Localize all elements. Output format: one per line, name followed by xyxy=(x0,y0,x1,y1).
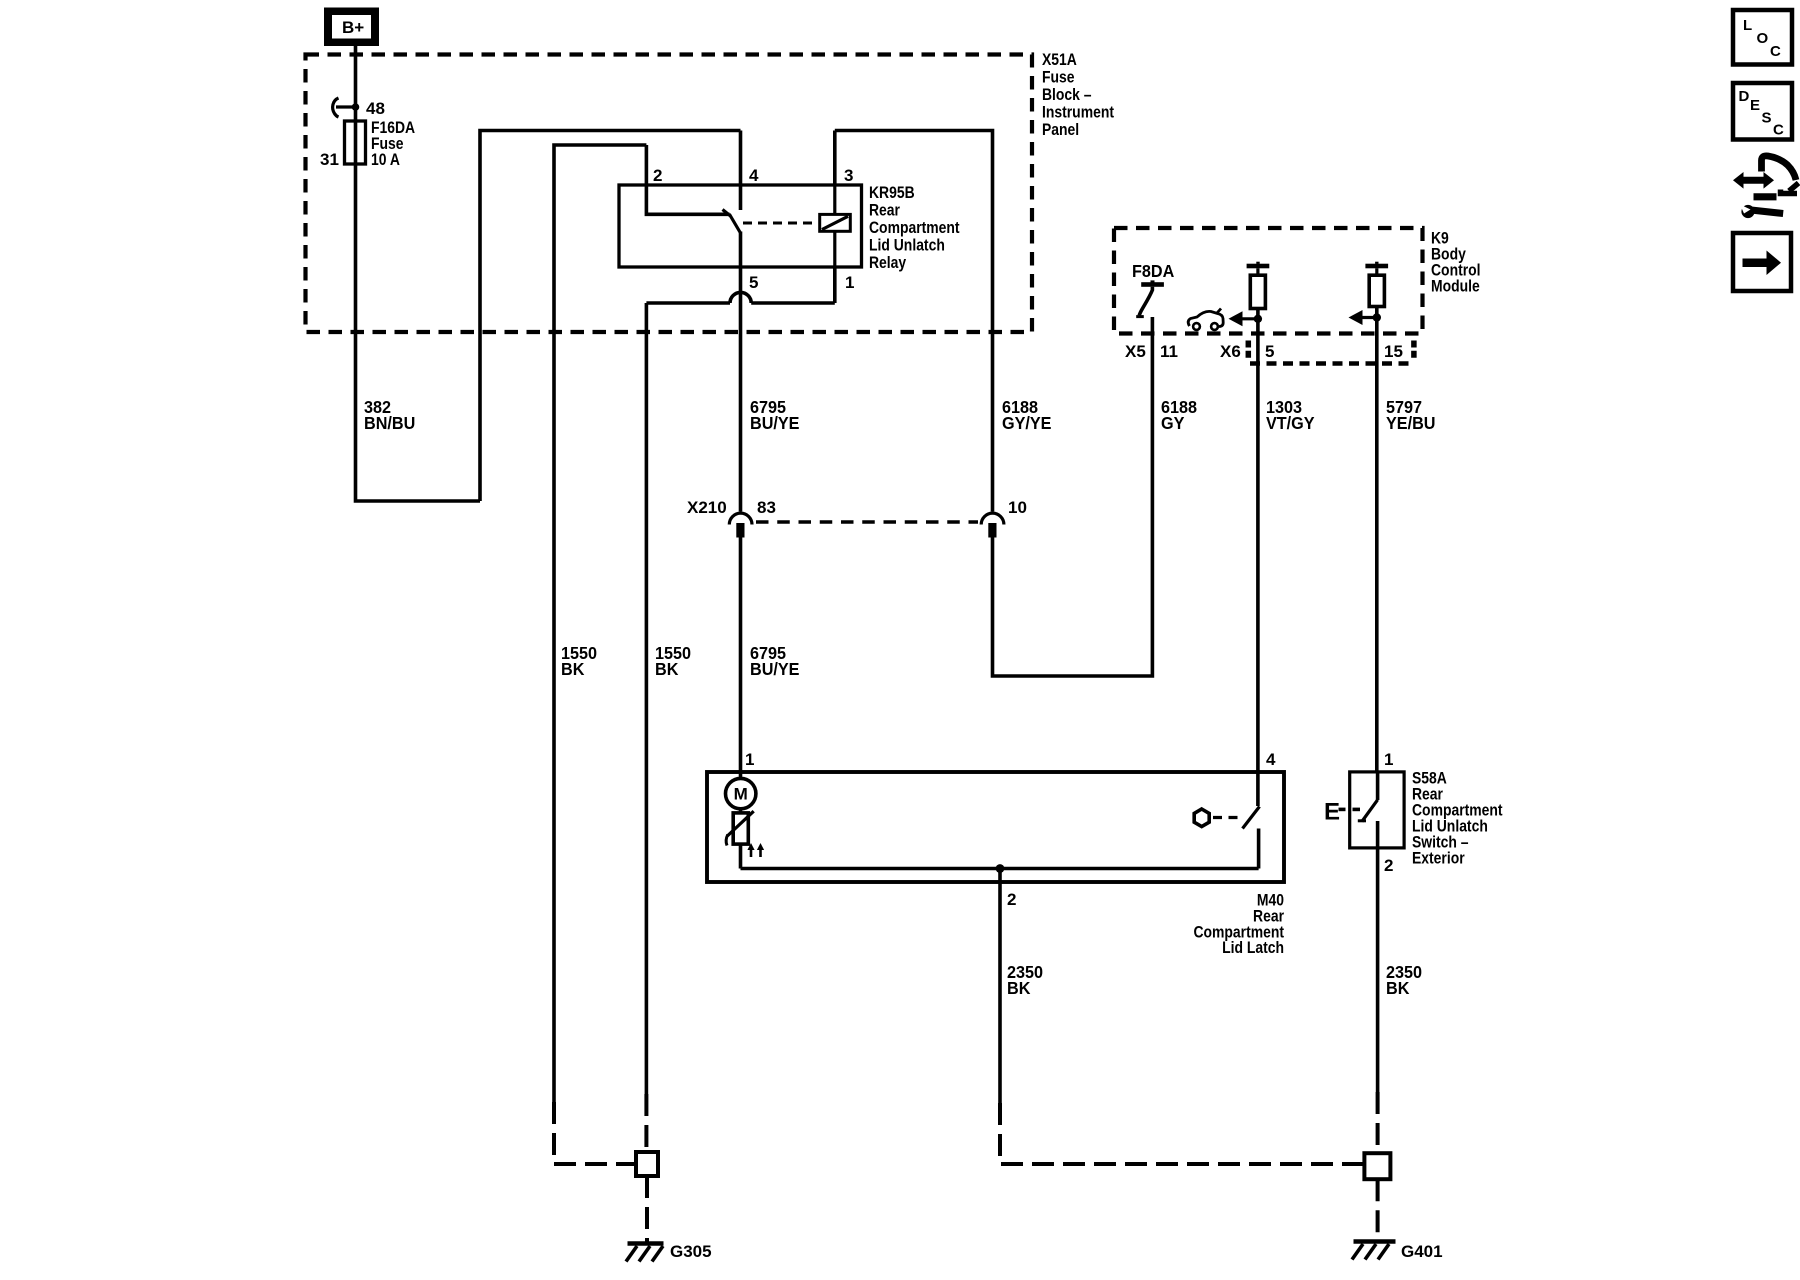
svg-text:C: C xyxy=(1773,122,1784,139)
svg-text:4: 4 xyxy=(1266,750,1276,769)
svg-text:BK: BK xyxy=(1386,978,1410,998)
svg-text:B+: B+ xyxy=(342,18,364,37)
splice box at G401 xyxy=(1364,1153,1390,1179)
wire X210 pin 10 to K9 X5-11 xyxy=(993,317,1153,676)
svg-text:BK: BK xyxy=(655,659,679,679)
dashed wire 1550 BK left to splice xyxy=(554,1102,636,1164)
svg-text:L: L xyxy=(1743,17,1752,34)
dashed wire splice to ground G305 xyxy=(645,1176,649,1242)
bus tap connector 48 xyxy=(333,98,360,117)
relay coil xyxy=(820,185,851,267)
svg-text:BU/YE: BU/YE xyxy=(750,413,799,433)
wire label 1550 BK (left) xyxy=(561,643,597,679)
M40 switch dashed link xyxy=(1213,816,1242,819)
K9 internal arrow (switch signal) xyxy=(1349,310,1382,325)
dashed wire 1550 BK right into splice xyxy=(644,1094,648,1152)
wire B+ through fuse down and right to riser xyxy=(356,46,481,501)
wire label 5797 YE/BU xyxy=(1386,397,1435,433)
svg-text:GY: GY xyxy=(1161,413,1185,433)
connector X210 pin 10 xyxy=(981,513,1004,537)
nav icon next arrow xyxy=(1733,233,1791,291)
svg-text:VT/GY: VT/GY xyxy=(1266,413,1315,433)
M40 switch blade xyxy=(1243,807,1260,829)
svg-text:Compartment: Compartment xyxy=(869,219,960,238)
wire label 6188 GY/YE xyxy=(1002,397,1051,433)
svg-text:BU/YE: BU/YE xyxy=(750,659,799,679)
svg-text:BK: BK xyxy=(1007,978,1031,998)
wire X210 pin 83 to M40 pin 1 xyxy=(739,538,743,773)
wire label 2350 BK (left) xyxy=(1007,962,1043,998)
svg-text:15: 15 xyxy=(1384,342,1403,361)
svg-text:E: E xyxy=(1750,97,1760,114)
wire label 1303 VT/GY xyxy=(1266,397,1315,433)
M40 internal bus wire xyxy=(741,844,1259,869)
label X51A Fuse Block - Instrument Panel xyxy=(1042,51,1114,140)
svg-text:M: M xyxy=(734,785,748,804)
relay mechanical linkage (dashed) xyxy=(743,222,818,225)
svg-text:BK: BK xyxy=(561,659,585,679)
M40 pin 4 lead xyxy=(1256,772,1260,806)
svg-text:Lid Unlatch: Lid Unlatch xyxy=(869,236,945,255)
svg-text:Instrument: Instrument xyxy=(1042,103,1114,122)
svg-text:X210: X210 xyxy=(687,498,727,517)
ground G305 xyxy=(626,1244,664,1262)
splice box at G305 xyxy=(636,1152,658,1176)
wire label 2350 BK (right) xyxy=(1386,962,1422,998)
nav icon DESC xyxy=(1733,83,1792,140)
S58A exterior actuator E xyxy=(1324,799,1360,826)
svg-text:Module: Module xyxy=(1431,277,1480,296)
relay pin 4 lead xyxy=(739,131,743,211)
label S58A Rear Compartment Lid Unlatch Switch - Exterior xyxy=(1412,769,1503,868)
dashed wire 2350 BK left to splice xyxy=(1000,1103,1364,1164)
connector X210 dashed mating line xyxy=(756,520,978,524)
wire relay pin 1 return with hop xyxy=(646,267,834,1094)
module K9 dashed box xyxy=(1114,228,1423,334)
svg-text:2: 2 xyxy=(1007,890,1016,909)
wire label 6188 GY xyxy=(1161,397,1197,433)
svg-text:2: 2 xyxy=(653,166,662,185)
relay KR95B box xyxy=(619,185,862,267)
svg-text:4: 4 xyxy=(749,166,759,185)
ground G401 xyxy=(1352,1242,1396,1260)
svg-text:S: S xyxy=(1762,110,1772,127)
relay pin 2 lead xyxy=(646,145,729,214)
svg-text:5: 5 xyxy=(749,273,758,292)
svg-text:C: C xyxy=(1770,43,1781,60)
thermal arrows xyxy=(747,843,764,857)
svg-text:1: 1 xyxy=(745,750,754,769)
K9 driver element (resistor) for 1303 output xyxy=(1247,262,1270,309)
svg-text:31: 31 xyxy=(320,150,339,169)
svg-text:5: 5 xyxy=(1265,342,1274,361)
junction node in M40 xyxy=(996,864,1005,873)
svg-text:Relay: Relay xyxy=(869,254,906,273)
svg-text:1: 1 xyxy=(1384,750,1393,769)
wire relay pin 3 to X210 pin 10 xyxy=(835,131,993,512)
svg-text:2: 2 xyxy=(1384,856,1393,875)
wire label 6795 BU/YE (lower) xyxy=(750,643,799,679)
svg-text:Lid Latch: Lid Latch xyxy=(1222,939,1284,958)
svg-text:GY/YE: GY/YE xyxy=(1002,413,1051,433)
hood open indicator (car icon) xyxy=(1188,309,1223,330)
wire riser up to relay pin 4 feed xyxy=(480,131,741,502)
svg-text:O: O xyxy=(1757,30,1769,47)
svg-text:BN/BU: BN/BU xyxy=(364,413,415,433)
relay switch blade xyxy=(729,214,740,233)
fuse F16DA body xyxy=(345,121,366,164)
latch M40 box xyxy=(707,772,1284,882)
wire K9 5797 input down to S58A pin 1 xyxy=(1375,307,1379,773)
fuse F8DA symbol xyxy=(1136,280,1164,316)
connector X210 pin 83 xyxy=(729,513,752,537)
circuit breaker (PTC) in M40 xyxy=(726,811,754,845)
svg-text:48: 48 xyxy=(366,99,385,118)
label M40 Rear Compartment Lid Latch xyxy=(1193,891,1284,957)
dashed wire 2350 BK right into splice xyxy=(1376,1092,1380,1153)
wire label 6795 BU/YE (upper) xyxy=(750,397,799,433)
nav icon LOC xyxy=(1733,10,1792,65)
svg-text:F8DA: F8DA xyxy=(1132,261,1174,281)
S58A switch blade xyxy=(1358,800,1378,822)
svg-text:83: 83 xyxy=(757,498,776,517)
wire label 382 BN/BU xyxy=(364,397,415,433)
svg-text:E: E xyxy=(1324,799,1340,826)
svg-text:G401: G401 xyxy=(1401,1242,1443,1261)
relay pin 3 lead xyxy=(833,131,837,186)
svg-text:X51A: X51A xyxy=(1042,51,1077,70)
svg-text:X5: X5 xyxy=(1125,342,1146,361)
M40 latch switch striker (hex) xyxy=(1194,809,1209,827)
svg-text:KR95B: KR95B xyxy=(869,184,915,203)
wire relay pin 5 to X210 pin 83 xyxy=(739,232,743,512)
svg-text:YE/BU: YE/BU xyxy=(1386,413,1435,433)
label K9 Body Control Module xyxy=(1431,229,1481,296)
svg-text:D: D xyxy=(1739,88,1750,105)
svg-text:Panel: Panel xyxy=(1042,121,1079,140)
dashed wire splice to ground G401 xyxy=(1376,1179,1380,1240)
svg-text:Rear: Rear xyxy=(869,201,900,220)
wire ground branch top (to relay pin 2) xyxy=(554,145,646,1102)
svg-text:Block –: Block – xyxy=(1042,86,1092,105)
switch S58A box xyxy=(1350,772,1404,848)
wire K9 1303 output down to M40 pin 4 xyxy=(1256,309,1260,773)
svg-text:3: 3 xyxy=(844,166,853,185)
connector X6 bracket xyxy=(1248,341,1414,364)
svg-text:Fuse: Fuse xyxy=(1042,68,1075,87)
K9 internal arrow (hood release command) xyxy=(1229,311,1263,326)
power symbol B+ xyxy=(324,8,379,47)
svg-text:Exterior: Exterior xyxy=(1412,849,1465,868)
svg-text:1: 1 xyxy=(845,273,854,292)
M40 switch lower stub xyxy=(1257,829,1261,869)
nav icon wiring tools xyxy=(1733,156,1799,218)
K9 driver element (resistor) for 5797 input xyxy=(1365,262,1388,307)
wire label 1550 BK (right) xyxy=(655,643,691,679)
fuse block X51A dashed box xyxy=(306,55,1033,333)
wire S58A pin 2 down xyxy=(1376,821,1380,1092)
label F16DA Fuse 10 A xyxy=(371,119,415,170)
svg-text:X6: X6 xyxy=(1220,342,1241,361)
svg-text:10 A: 10 A xyxy=(371,151,400,170)
wire M40 pin 2 down xyxy=(998,869,1002,1104)
label KR95B Rear Compartment Lid Unlatch Relay xyxy=(869,184,960,273)
svg-text:10: 10 xyxy=(1008,498,1027,517)
relay switch contact tick xyxy=(723,210,731,217)
svg-text:11: 11 xyxy=(1160,342,1178,361)
motor M xyxy=(726,772,756,813)
S58A pin 1 lead xyxy=(1376,771,1380,800)
svg-text:G305: G305 xyxy=(670,1242,712,1261)
